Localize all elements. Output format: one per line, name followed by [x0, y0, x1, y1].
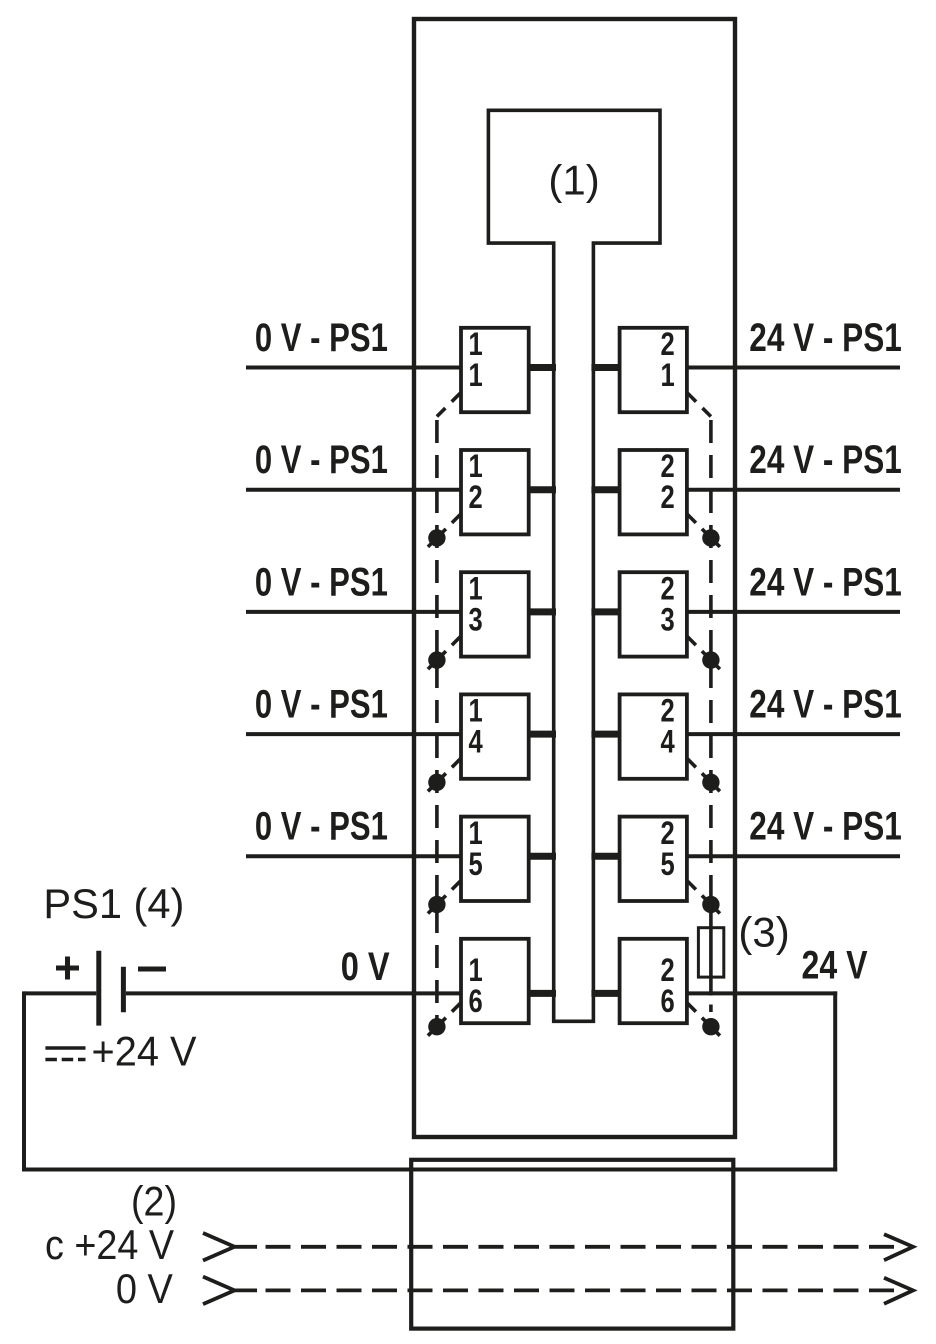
plus sign [56, 966, 79, 971]
junction dot 0V bus row 6 [428, 1018, 445, 1035]
DC symbol dashed bar [45, 1058, 85, 1062]
svg-text:6: 6 [661, 983, 675, 1019]
stub terminal 15 to stem [527, 853, 556, 860]
wire right row 3 [687, 610, 900, 614]
stub stem to terminal 22 [591, 486, 621, 493]
dashed tap terminal 15 to 0V bus [452, 881, 461, 890]
svg-text:5: 5 [661, 846, 675, 882]
stub terminal 16 to stem [527, 990, 556, 997]
dashed 24V bus vertical [709, 420, 713, 906]
stub terminal 14 to stem [527, 731, 556, 738]
svg-text:0 V - PS1: 0 V - PS1 [255, 560, 388, 604]
svg-text:0 V - PS1: 0 V - PS1 [255, 805, 388, 849]
terminal box 26 [620, 939, 687, 1023]
junction dot 24V bus row 2 [702, 529, 719, 546]
dashed 24V bus diagonal top [687, 393, 711, 417]
terminal box 14 [461, 694, 529, 778]
junction dot 0V bus row 5 [428, 896, 445, 913]
wire right row 5 [687, 854, 900, 858]
svg-text:24 V - PS1: 24 V - PS1 [749, 438, 902, 482]
svg-text:0 V - PS1: 0 V - PS1 [255, 316, 388, 360]
svg-text:2: 2 [661, 479, 675, 515]
dashed 0V bus vertical [435, 420, 439, 1027]
stub terminal 11 to stem [527, 364, 556, 371]
svg-text:2: 2 [469, 479, 483, 515]
fuse F1 lead bottom dash [709, 1005, 713, 1013]
terminal box 25 [620, 817, 687, 901]
dashed tap terminal 22 to 24V bus [687, 514, 696, 523]
wire right row 4 [687, 732, 900, 736]
junction dot 24V bus row 3 [702, 651, 719, 668]
dashed tap terminal 26 to 24V bus [687, 1003, 696, 1012]
svg-text:4: 4 [661, 724, 675, 760]
junction dot 0V bus row 4 [428, 774, 445, 791]
wire 24V right drop [833, 991, 837, 1171]
stub stem to terminal 23 [591, 608, 621, 615]
svg-text:5: 5 [469, 846, 483, 882]
wire left row 3 [246, 610, 461, 614]
dashed tap terminal 14 to 0V bus [452, 758, 461, 767]
terminal box 11 [461, 328, 529, 412]
wire left row 1 [246, 366, 461, 370]
svg-text:0 V - PS1: 0 V - PS1 [255, 438, 388, 482]
fuse F1 lead top [709, 906, 713, 928]
svg-text:(2): (2) [131, 1177, 177, 1224]
cable c +24 V left chevron [203, 1233, 235, 1261]
terminal box 23 [620, 572, 687, 656]
wire 24 V from terminal 26 to right [687, 991, 837, 995]
junction dot 0V bus row 2 [428, 529, 445, 546]
block (1) with stem [488, 110, 660, 1021]
svg-text:1: 1 [469, 357, 483, 393]
wire bottom return [22, 1168, 837, 1172]
module outline [414, 19, 735, 1137]
svg-text:3: 3 [661, 601, 675, 637]
svg-text:PS1 (4): PS1 (4) [43, 880, 184, 927]
svg-text:+24 V: +24 V [92, 1028, 197, 1075]
terminal box 24 [620, 694, 687, 778]
terminal box 13 [461, 572, 529, 656]
minus sign [138, 967, 166, 972]
wire left row 5 [246, 854, 461, 858]
connector block (2) [411, 1160, 733, 1329]
svg-text:0 V: 0 V [341, 945, 391, 989]
terminal box 16 [461, 939, 529, 1023]
cable 0 V line [235, 1289, 258, 1293]
dashed tap terminal 25 to 24V bus [687, 881, 696, 890]
svg-text:6: 6 [469, 983, 483, 1019]
terminal box 21 [620, 328, 687, 412]
wire right row 2 [687, 488, 900, 492]
cable 0 V arrow head [884, 1278, 913, 1304]
svg-text:24 V - PS1: 24 V - PS1 [749, 560, 902, 604]
cable c +24 V arrow head [884, 1234, 913, 1260]
fuse F1 element line [709, 928, 713, 996]
wire left row 2 [246, 488, 461, 492]
junction dot 24V bus row 5 [702, 896, 719, 913]
dashed tap terminal 13 to 0V bus [452, 636, 461, 645]
stub terminal 12 to stem [527, 486, 556, 493]
terminal box 12 [461, 450, 529, 534]
cable 0 V left chevron [203, 1277, 235, 1305]
svg-text:1: 1 [661, 357, 675, 393]
dashed tap terminal 23 to 24V bus [687, 636, 696, 645]
junction dot 0V bus row 3 [428, 651, 445, 668]
junction dot 24V bus row 6 [702, 1018, 719, 1035]
svg-text:0 V - PS1: 0 V - PS1 [255, 683, 388, 727]
svg-text:3: 3 [469, 601, 483, 637]
terminal box 15 [461, 817, 529, 901]
dashed tap terminal 24 to 24V bus [687, 758, 696, 767]
stub terminal 13 to stem [527, 608, 556, 615]
stub stem to terminal 21 [591, 364, 621, 371]
wire left row 4 [246, 732, 461, 736]
battery PS1 negative plate [121, 967, 126, 1012]
wire 0 V from battery to terminal 16 [24, 991, 96, 995]
fuse F1 body [698, 928, 723, 977]
battery PS1 positive plate [96, 951, 101, 1026]
svg-text:24 V - PS1: 24 V - PS1 [749, 683, 902, 727]
terminal box 22 [620, 450, 687, 534]
stub stem to terminal 24 [591, 731, 621, 738]
stub stem to terminal 26 [591, 990, 621, 997]
dashed tap terminal 16 to 0V bus [452, 1003, 461, 1012]
DC symbol solid bar [45, 1046, 85, 1050]
svg-text:24 V - PS1: 24 V - PS1 [749, 316, 902, 360]
wire battery left drop [22, 991, 26, 1171]
wire right row 1 [687, 366, 900, 370]
svg-text:24 V - PS1: 24 V - PS1 [749, 805, 902, 849]
svg-text:(3): (3) [738, 909, 789, 956]
junction dot 24V bus row 4 [702, 774, 719, 791]
svg-text:(1): (1) [548, 157, 599, 204]
svg-text:4: 4 [469, 724, 483, 760]
dashed 0V bus diagonal top [437, 393, 461, 417]
svg-text:0 V: 0 V [116, 1265, 173, 1312]
svg-text:24 V: 24 V [802, 943, 869, 987]
stub stem to terminal 25 [591, 853, 621, 860]
cable c +24 V line [235, 1245, 258, 1249]
dashed tap terminal 12 to 0V bus [452, 514, 461, 523]
svg-text:c +24 V: c +24 V [45, 1221, 174, 1268]
